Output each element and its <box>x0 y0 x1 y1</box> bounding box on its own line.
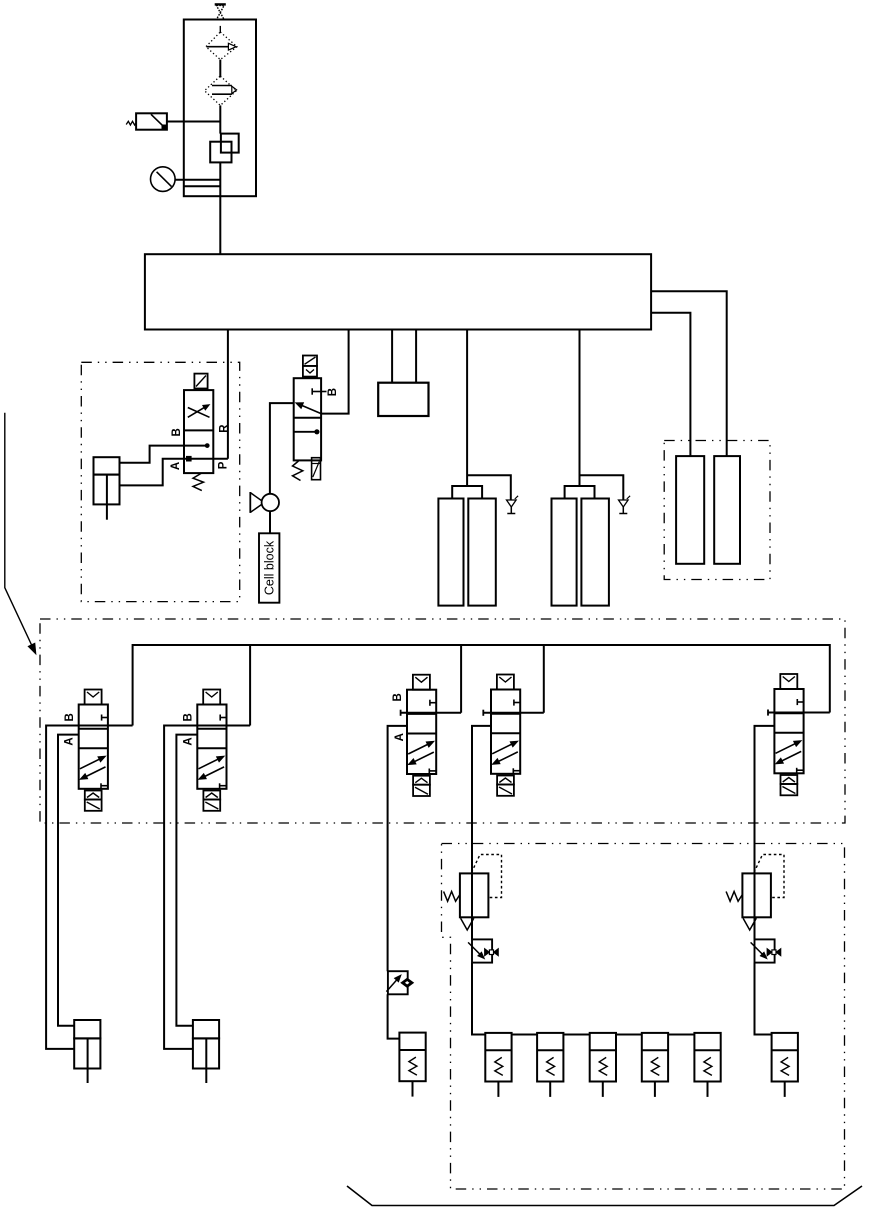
exhaust port T of terminal valve 2 <box>219 783 221 789</box>
svg-text:Cell block: Cell block <box>262 540 276 595</box>
svg-text:B: B <box>64 713 76 721</box>
blocked port T of terminal valve 2 <box>220 717 226 719</box>
drain nozzle of right pair <box>619 500 629 507</box>
wire - manifold taps to blow-off block <box>391 330 393 383</box>
pilot cap of terminal valve 3 <box>413 675 430 690</box>
wire - valve 5 supply with stub <box>768 712 830 714</box>
relief vent of left group regulator <box>461 918 474 930</box>
flow arrows of terminal valve 5 <box>776 742 799 754</box>
svg-text:B: B <box>171 428 183 436</box>
enclosure - ejection cylinder group (dash-dot) <box>442 844 845 1190</box>
flow arrows of terminal valve 3 <box>408 743 431 755</box>
ejection cylinder 5 (single acting, spring return) <box>694 1033 720 1082</box>
annotation leader arrow to valve terminal <box>5 413 33 648</box>
blocked port T of terminal valve 5 <box>797 701 803 703</box>
wire - regulator to gauge tee <box>219 162 221 196</box>
enclosure - clamp cylinder group (dash-dot) <box>81 362 239 601</box>
wire - left regulator to cylinder bus <box>471 917 473 939</box>
right nozzle-bar pair manifold bridge <box>565 486 595 499</box>
left nozzle-bar pair manifold bridge <box>452 486 482 499</box>
wire - right regulator to single cylinder <box>754 917 756 939</box>
clamp cylinder of valve 1 <box>74 1020 100 1038</box>
wire - manifold right output A to reserve tank <box>651 291 727 456</box>
spring of left group regulator <box>444 892 460 902</box>
manual override of terminal valve 2 <box>203 800 220 811</box>
blocked port T of terminal valve 3 <box>430 702 436 704</box>
svg-text:A: A <box>394 733 406 741</box>
manual override of terminal valve 1 <box>85 800 102 811</box>
air service unit enclosure <box>184 20 256 197</box>
ejection cylinder 2 (single acting, spring return) <box>537 1033 563 1082</box>
flow arrows of terminal valve 1 <box>80 757 103 769</box>
wire - branch to left drain nozzle <box>467 475 511 500</box>
wire - valve P/A line to clamp cylinder rod side <box>120 459 228 486</box>
wire - valve 3 supply with stub <box>401 712 462 714</box>
spring cap of terminal valve 4 <box>497 776 514 785</box>
spring of right group regulator <box>726 892 742 902</box>
svg-text:B: B <box>327 388 339 396</box>
wire - valve 1 output A <box>58 735 79 1026</box>
clamp cylinder (double acting) <box>94 457 120 474</box>
blocked port T of terminal valve 4 <box>514 702 520 704</box>
pilot cap of terminal valve 5 <box>780 674 797 689</box>
wire - blow valve output to blow gun <box>270 403 294 494</box>
wire - bus drop to valve 2 <box>249 645 251 726</box>
enclosure - reserve tank group (dash-dot) <box>664 441 770 580</box>
wire - valve port B to clamp cylinder head side <box>120 446 208 463</box>
air distribution manifold block <box>145 254 651 329</box>
collection tray outline <box>347 1186 862 1206</box>
pilot line of left group regulator (dashed) <box>472 855 502 898</box>
body of terminal valve 2 <box>197 705 226 789</box>
wire - valve 1 output B <box>46 726 133 1049</box>
safety relief valve (box with diagonal, spring actuated) <box>136 113 167 129</box>
wire - gauge branch <box>175 179 220 181</box>
cell block unit <box>259 533 279 602</box>
ejection cylinder 1 (single acting, spring return) <box>485 1033 511 1082</box>
wire - blow gun to cell block <box>269 511 271 533</box>
wire - valve 4 output down to left regulator <box>472 726 491 874</box>
drain nozzle of left pair <box>507 500 517 507</box>
wire - bus drop to valve 3 <box>460 645 462 713</box>
pressure regulator R1 (overlapping squares) <box>221 134 239 153</box>
wire - ejection cylinder bus <box>512 1034 537 1036</box>
wire - flow control to pusher cylinder <box>388 994 400 1038</box>
svg-text:R: R <box>218 424 230 433</box>
enclosure - valve terminal (dash-dot) <box>40 619 845 823</box>
spring return of 3/2 valve <box>293 461 303 481</box>
exhaust port T of terminal valve 4 <box>512 768 514 774</box>
reserve tank 1 <box>676 456 704 564</box>
wire - valve 4 supply with stub <box>483 712 544 714</box>
throttle check valve of right group <box>755 939 775 962</box>
body of terminal valve 3 <box>407 690 436 774</box>
throttle check valve of left group <box>472 939 492 962</box>
manual override of 3/2 valve <box>312 458 321 480</box>
blow gun nozzle (trumpet + ball) <box>249 492 251 513</box>
one-way flow control on valve 3 line <box>388 971 408 994</box>
wire - manifold right output B to reserve tank <box>651 313 690 456</box>
flow arrows of terminal valve 2 <box>199 757 222 769</box>
wire - manifold tap to 4/2 valve supply P <box>227 330 229 459</box>
wire - valve terminal supply bus <box>133 645 830 726</box>
spring cap of terminal valve 1 <box>85 791 102 800</box>
manual override of terminal valve 4 <box>497 785 514 796</box>
wire - valve 5 output down to right regulator <box>755 726 775 874</box>
pressure gauge G1 <box>151 167 176 192</box>
blocked port T of terminal valve 1 <box>102 717 108 719</box>
svg-text:P: P <box>218 461 230 469</box>
blow-off block (silencer) <box>378 383 428 416</box>
wire - manifold tap to left nozzle-bar pair <box>466 330 468 487</box>
pusher cylinder 0 (single acting, spring return) <box>399 1033 425 1082</box>
clamp cylinder of valve 2 <box>193 1020 219 1038</box>
pilot cap of terminal valve 1 <box>85 690 102 705</box>
wire - between filters <box>219 60 221 78</box>
svg-text:B: B <box>183 713 195 721</box>
wire - service unit output to manifold <box>219 196 221 254</box>
pressure regulator of left group <box>460 873 489 917</box>
pilot line of right group regulator (dashed) <box>754 855 784 898</box>
spring cap of terminal valve 5 <box>781 775 798 784</box>
wire - valve 2 output A <box>176 735 197 1026</box>
wire - bus drop to valve 4 <box>543 645 545 713</box>
flow path arrow in 3/2 valve <box>299 404 322 414</box>
reserve tank 2 <box>714 456 740 564</box>
pilot cap of terminal valve 4 <box>497 675 514 690</box>
spring cap of terminal valve 3 <box>413 776 430 785</box>
svg-text:A: A <box>64 737 76 745</box>
svg-text:A: A <box>170 462 182 470</box>
3/2-way valve with solenoid, spring return and manual override <box>303 356 317 366</box>
wire - manifold tap to 3/2 valve supply <box>321 330 349 414</box>
filter F1 (dotted diamond with drain arrow) <box>219 26 221 33</box>
svg-text:A: A <box>182 737 194 745</box>
exhaust port T of terminal valve 3 <box>428 769 430 775</box>
wire - valve 3 output down <box>388 726 407 971</box>
wire - valve 2 output B <box>164 726 250 1049</box>
pilot cap of terminal valve 2 <box>203 690 220 705</box>
flow arrows of terminal valve 4 <box>492 742 515 754</box>
wire - safety valve branch <box>167 121 220 123</box>
pressure regulator of right group <box>742 873 771 917</box>
exhaust port T of terminal valve 1 <box>100 783 102 789</box>
wire - manifold tap to right nozzle-bar pair <box>579 330 581 487</box>
ejection cylinder 6 (single acting, spring return) <box>772 1033 798 1082</box>
body of terminal valve 1 <box>79 705 108 789</box>
wire - branch to right drain nozzle <box>580 475 624 500</box>
body of terminal valve 5 <box>774 689 803 773</box>
svg-text:B: B <box>392 693 404 701</box>
4/2-way valve with solenoid and spring return <box>194 374 207 389</box>
manual override of terminal valve 3 <box>413 785 430 796</box>
ejection cylinder 4 (single acting, spring return) <box>642 1033 668 1082</box>
wire - filter to regulator <box>219 105 221 133</box>
spring cap of terminal valve 2 <box>203 791 220 800</box>
filter F2 with separator (dotted diamond) <box>205 76 237 105</box>
spring return of 4/2 valve <box>193 473 204 491</box>
blocked line with plug dot <box>294 431 318 433</box>
ejection cylinder 3 (single acting, spring return) <box>590 1033 616 1082</box>
body of terminal valve 4 <box>491 690 520 774</box>
shut-off valve V1 at air supply inlet <box>215 3 226 5</box>
port stub to label B <box>312 391 326 393</box>
relief vent of right group regulator <box>743 918 756 930</box>
manual override of terminal valve 5 <box>781 784 798 795</box>
exhaust port T of terminal valve 5 <box>796 768 798 774</box>
